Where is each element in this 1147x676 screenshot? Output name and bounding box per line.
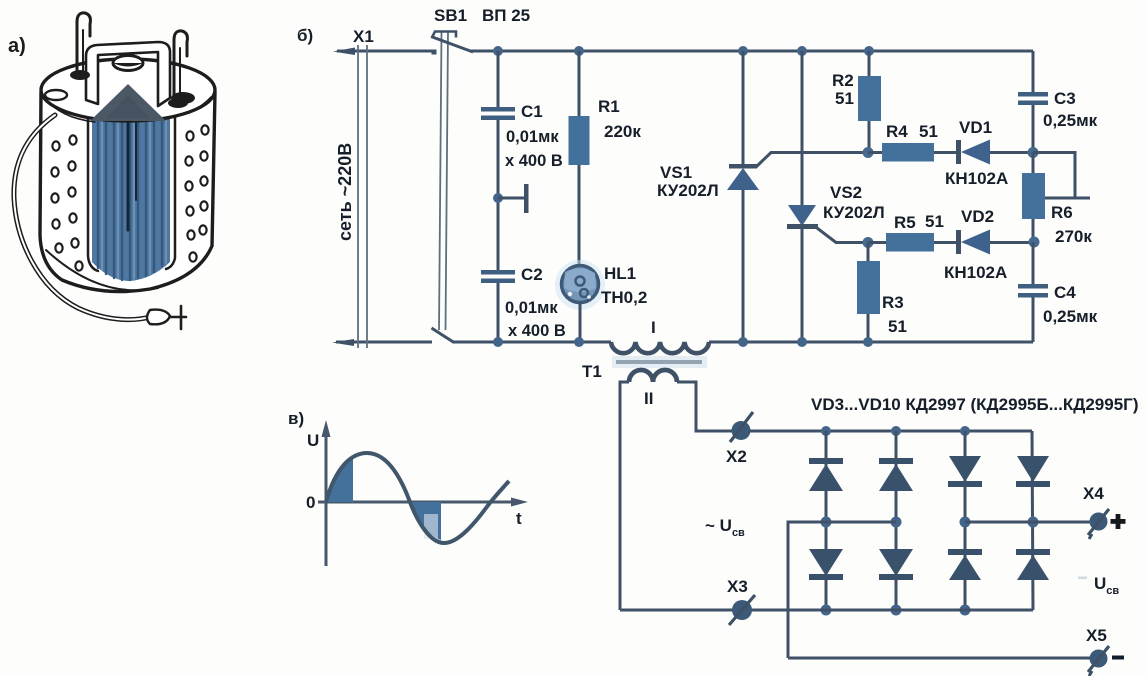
node bottom rail / VS1	[738, 337, 748, 347]
connector X1 label	[353, 27, 374, 46]
coil core (blue winding)	[92, 95, 170, 281]
wire winding II left / to X3 rail	[620, 382, 629, 610]
label VS1	[660, 163, 692, 182]
svg-text:SB1: SB1	[434, 6, 467, 25]
svg-text:ТН0,2: ТН0,2	[601, 288, 647, 307]
wire VS1 anode	[742, 190, 745, 342]
connector X4	[1088, 509, 1109, 539]
svg-text:VD1: VD1	[959, 118, 992, 137]
label C3 value 0,25мк	[1043, 111, 1098, 130]
node bottom rail col3	[960, 605, 971, 616]
label VD3...VD10 КД2997 (КД2995Б...КД2995Г)	[811, 395, 1138, 414]
waveform shaded area positive	[326, 456, 353, 502]
label R1	[598, 97, 620, 116]
wire VS2 gate	[817, 228, 866, 243]
connector X5	[1088, 646, 1109, 676]
transformer T1 winding II	[629, 370, 677, 382]
wire top mains rail	[337, 50, 1033, 53]
node electrode junction	[493, 193, 503, 203]
label ВП 25	[482, 6, 530, 25]
svg-text:51: 51	[925, 212, 944, 231]
svg-text:R2: R2	[832, 71, 854, 90]
label U	[307, 431, 319, 450]
svg-text:51: 51	[888, 317, 907, 336]
svg-text:0,01мк: 0,01мк	[505, 299, 558, 317]
svg-text:C1: C1	[521, 102, 543, 121]
node bottom rail / R3	[863, 337, 873, 347]
node bottom rail / HL1	[574, 337, 584, 347]
label R5	[894, 213, 916, 232]
label ~ Uсв	[705, 516, 745, 539]
svg-text:ВП 25: ВП 25	[482, 6, 530, 25]
label R4 value 51	[919, 122, 938, 141]
arrow top rail left	[333, 48, 355, 56]
diode VD7	[948, 456, 982, 487]
svg-text:C2: C2	[521, 265, 543, 284]
svg-text:220к: 220к	[604, 122, 641, 141]
svg-text:0,01мк: 0,01мк	[506, 128, 559, 146]
label VS2	[830, 183, 862, 202]
label а)	[8, 35, 26, 57]
svg-text:сеть ~220В: сеть ~220В	[335, 143, 355, 241]
connector X2	[730, 412, 753, 442]
label R4	[886, 122, 908, 141]
node VD1 / C3 / R6	[1028, 147, 1039, 158]
svg-text:R1: R1	[598, 97, 620, 116]
wire R6 to node	[1032, 219, 1035, 242]
label C2 value 0,01мк	[505, 299, 558, 317]
node top rail / VS2	[797, 46, 807, 56]
wire node to R4	[868, 151, 884, 154]
node mid col2	[891, 517, 902, 528]
svg-text:х 400 В: х 400 В	[508, 322, 566, 340]
wire right rail upper	[1032, 51, 1035, 94]
waveform sine curve	[326, 453, 509, 543]
diode VD2	[956, 230, 990, 255]
wire bridge column 3	[964, 431, 967, 610]
label winding I	[651, 318, 656, 337]
node VD2 / R6 / C4	[1029, 237, 1040, 248]
svg-text:КН102А: КН102А	[944, 263, 1007, 282]
label plus	[1111, 514, 1126, 529]
svg-text:в): в)	[288, 409, 304, 428]
power cable	[14, 115, 150, 320]
label X4	[1083, 484, 1104, 503]
svg-text:VS1: VS1	[660, 163, 692, 182]
label R6	[1051, 203, 1073, 222]
transformer T1 core	[612, 356, 707, 368]
node top rail / R1	[574, 46, 584, 56]
wire C1 branch upper	[497, 51, 500, 109]
wire bridge column 1	[825, 431, 828, 610]
lighter device illustration	[14, 13, 215, 329]
wire node to C4	[1032, 242, 1035, 286]
label R2 value 51	[835, 89, 854, 108]
wire winding II right to X2	[677, 382, 733, 431]
cutaway edges	[88, 104, 175, 271]
wire R3 upper	[867, 243, 870, 263]
wire bottom mains rail	[336, 341, 1033, 344]
wire R2 lower	[868, 121, 871, 152]
label HL1	[604, 264, 636, 283]
thyristor VS2	[787, 205, 818, 229]
node bottom rail / C2	[493, 337, 503, 347]
node top rail col2	[891, 426, 901, 436]
wire bridge bottom rail	[620, 609, 1033, 612]
resistor R5	[886, 233, 934, 252]
svg-text:X1: X1	[353, 27, 374, 46]
capacitor C2	[481, 270, 515, 283]
arrow bottom rail left	[332, 339, 354, 346]
node bottom rail col2	[891, 605, 902, 616]
node top rail col3	[960, 426, 970, 436]
svg-text:X5: X5	[1086, 626, 1107, 645]
top rim ellipse	[41, 59, 215, 122]
svg-text:0: 0	[306, 493, 315, 512]
wire R6 tap	[1033, 153, 1090, 199]
capacitor C1	[481, 107, 515, 120]
diode VD5	[879, 458, 913, 491]
diode VD8	[948, 549, 982, 580]
node gate VS1 / R2 / R4	[863, 147, 874, 158]
label C2 value x 400 В	[508, 322, 566, 340]
label VS2 type КУ202Л	[823, 203, 885, 222]
wire VD1 to right rail	[990, 151, 1033, 154]
label C2	[521, 265, 543, 284]
label VD1 type КН102А	[945, 169, 1008, 188]
perforation holes left shell	[51, 135, 82, 270]
wire R2 upper	[868, 51, 871, 77]
svg-text:R5: R5	[894, 213, 916, 232]
transformer T1 winding I	[611, 342, 709, 353]
label R3	[882, 293, 904, 312]
connector X3	[729, 595, 755, 625]
wire bridge top rail	[749, 430, 1032, 433]
label Uсв near X4	[1078, 574, 1119, 597]
perforation holes right shell	[185, 125, 208, 261]
node top rail col1	[821, 426, 831, 436]
wire VS2 cathode	[801, 229, 804, 342]
node top rail / VS1	[738, 46, 748, 56]
svg-text:а): а)	[8, 35, 26, 57]
terminal pin left	[70, 13, 90, 80]
svg-text:VS2: VS2	[830, 183, 862, 202]
mains plug	[147, 306, 186, 329]
label C3	[1054, 89, 1076, 108]
node mid col3	[960, 517, 971, 528]
svg-text:II: II	[644, 389, 653, 408]
svg-text:R3: R3	[882, 293, 904, 312]
wire bridge column 2	[895, 431, 898, 610]
label R5 value 51	[925, 212, 944, 231]
wire plus mid rail to X4	[965, 521, 1091, 524]
waveform shaded area negative	[411, 502, 441, 540]
svg-text:КУ202Л: КУ202Л	[823, 203, 885, 222]
svg-text:C4: C4	[1054, 283, 1076, 302]
label VS1 type КУ202Л	[657, 181, 719, 200]
svg-text:C3: C3	[1054, 89, 1076, 108]
wire C2 lower	[497, 283, 500, 342]
svg-text:б): б)	[297, 26, 313, 45]
svg-text:HL1: HL1	[604, 264, 636, 283]
wire C1 to C2	[497, 120, 500, 272]
label X2	[726, 447, 747, 466]
resistor R6	[1022, 173, 1045, 219]
diode VD4	[809, 549, 843, 580]
wire VD2 to right rail	[990, 241, 1034, 244]
svg-text:51: 51	[919, 122, 938, 141]
node bottom rail col1	[821, 605, 832, 616]
terminal pin right	[168, 31, 188, 108]
wire R3 lower	[867, 314, 870, 342]
wire R4 to VD1	[934, 151, 958, 154]
diode VD9	[1016, 456, 1050, 487]
wire X5 line	[788, 657, 1092, 660]
label winding II	[644, 389, 653, 408]
label R6 value 270к	[1055, 227, 1092, 246]
svg-text:VD2: VD2	[961, 207, 994, 226]
svg-text:VD3...VD10 КД2997 (КД2995Б...К: VD3...VD10 КД2997 (КД2995Б...КД2995Г)	[811, 395, 1138, 414]
resistor R4	[882, 143, 934, 162]
wire C3 to node	[1032, 105, 1035, 152]
svg-text:270к: 270к	[1055, 227, 1092, 246]
wire R1 to HL1	[578, 165, 581, 269]
resistor R3	[857, 261, 880, 314]
device body shell	[40, 92, 215, 292]
svg-text:t: t	[516, 509, 522, 528]
svg-text:51: 51	[835, 89, 854, 108]
thyristor VS1	[727, 164, 759, 190]
label C1	[521, 102, 543, 121]
node top rail / R2	[864, 46, 874, 56]
wire bridge column 4	[1032, 431, 1033, 610]
waveform t axis	[318, 498, 528, 507]
wire VS2 anode	[801, 51, 804, 206]
svg-text:X3: X3	[727, 577, 748, 596]
diode VD1	[956, 140, 990, 165]
node gate VS2 / R3 / R5	[863, 237, 874, 248]
node top rail / C1	[493, 46, 503, 56]
switch SB1	[431, 32, 473, 343]
label HL1 value ТН0,2	[601, 288, 647, 307]
label б)	[297, 26, 313, 45]
label X3	[727, 577, 748, 596]
label C1 value x 400 В	[505, 152, 563, 170]
label R2	[832, 71, 854, 90]
mounting bracket	[86, 42, 170, 106]
svg-text:R4: R4	[886, 122, 908, 141]
wire R5 to VD2	[934, 241, 958, 244]
wire VS1 gate	[756, 153, 866, 168]
wire VS1 cathode	[742, 51, 745, 166]
wire HL1 lower	[579, 302, 582, 342]
capacitor C3	[1018, 92, 1048, 105]
waveform U axis	[322, 420, 331, 566]
label VD2 type КН102А	[944, 263, 1007, 282]
svg-text:T1: T1	[582, 362, 602, 381]
wire minus mid rail	[788, 522, 896, 658]
svg-text:R6: R6	[1051, 203, 1073, 222]
lamp HL1	[555, 260, 605, 310]
label R1 value 220к	[604, 122, 641, 141]
wire node to R6	[1032, 152, 1035, 174]
node bottom rail / VS2	[797, 337, 807, 347]
svg-text:КН102А: КН102А	[945, 169, 1008, 188]
node mid col1	[821, 517, 832, 528]
diode VD10	[1016, 549, 1050, 580]
connector X1 plug prongs	[358, 45, 367, 348]
label minus	[1112, 656, 1124, 660]
wire node to R5	[868, 241, 888, 244]
resistor R2	[858, 76, 881, 121]
svg-text:U: U	[307, 431, 319, 450]
svg-text:X4: X4	[1083, 484, 1104, 503]
wire R1 upper	[578, 51, 581, 117]
svg-text:0,25мк: 0,25мк	[1043, 111, 1098, 130]
label C1 value 0,01мк	[506, 128, 559, 146]
node mid col4	[1028, 517, 1039, 528]
label VD1	[959, 118, 992, 137]
svg-text:I: I	[651, 318, 656, 337]
wire C4 lower / right rail to bottom	[1032, 297, 1035, 342]
electrode stub	[498, 184, 529, 213]
diode VD6	[879, 549, 913, 580]
label SB1	[434, 6, 467, 25]
label 0	[306, 493, 315, 512]
label t	[516, 509, 522, 528]
label R3 value 51	[888, 317, 907, 336]
svg-text:КУ202Л: КУ202Л	[657, 181, 719, 200]
label в)	[288, 409, 304, 428]
label X5	[1086, 626, 1107, 645]
label сеть ~220В	[335, 143, 355, 241]
label C4 value 0,25мк	[1043, 307, 1098, 326]
label C4	[1054, 283, 1076, 302]
label VD2	[961, 207, 994, 226]
label T1	[582, 362, 602, 381]
svg-text:0,25мк: 0,25мк	[1043, 307, 1098, 326]
svg-text:х 400 В: х 400 В	[505, 152, 563, 170]
resistor R1	[569, 116, 590, 165]
svg-text:X2: X2	[726, 447, 747, 466]
diode VD3	[809, 458, 843, 491]
capacitor C4	[1018, 284, 1048, 298]
